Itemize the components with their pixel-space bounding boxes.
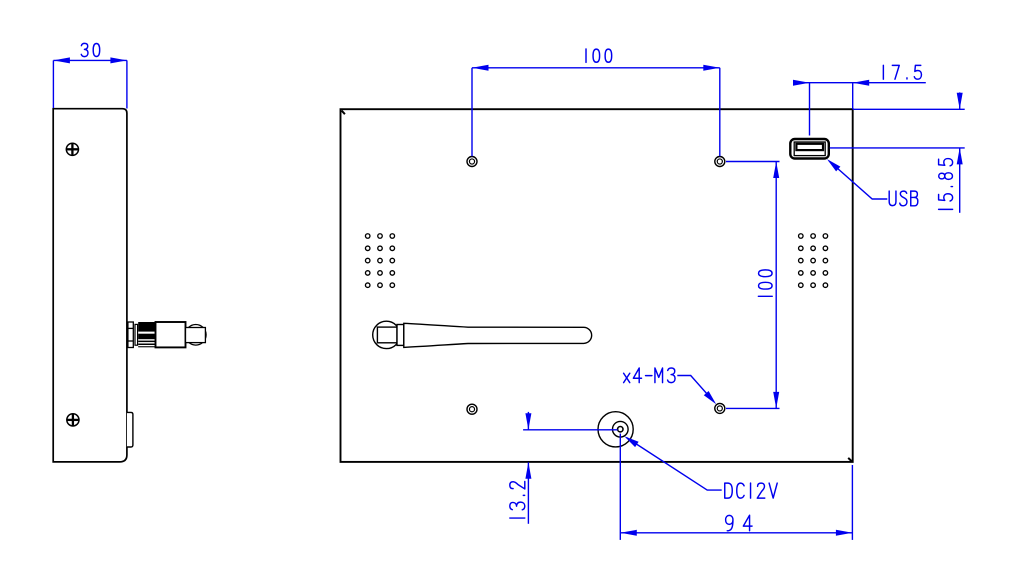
USB port inner shell bbox=[794, 142, 825, 156]
dim text 94 bbox=[726, 515, 752, 531]
dim 13.2 dimension line lower bbox=[527, 462, 529, 524]
dim text 17.5 bbox=[883, 65, 921, 79]
dim 17.5 extension line (USB centre) bbox=[809, 83, 811, 136]
antenna connector thin collar bbox=[135, 324, 138, 345]
dim 94 extension line right bbox=[851, 465, 853, 540]
dim 94 dimension line bbox=[620, 532, 852, 534]
right speaker grille holes bbox=[799, 234, 828, 288]
dim 100 right extension line top bbox=[726, 161, 780, 163]
label DC12V bbox=[725, 483, 777, 498]
dim 17.5 extension line (right edge) bbox=[852, 83, 854, 109]
dim 15.85 arrow down bbox=[957, 93, 963, 110]
rear view enclosure bbox=[341, 109, 853, 462]
dim 15.85 reference line USB centre bbox=[830, 147, 965, 149]
M3 mounting hole top-left bbox=[467, 157, 477, 167]
dim 13.2 dimension line upper bbox=[527, 412, 529, 430]
dim 94 arrow left bbox=[620, 530, 637, 536]
antenna body bbox=[404, 323, 592, 347]
label x4-M3 bbox=[624, 368, 675, 383]
side view enclosure bbox=[53, 109, 127, 462]
dim 30 dimension line bbox=[53, 59, 127, 61]
dim text 100 right bbox=[758, 270, 772, 296]
USB port outer shell bbox=[790, 139, 829, 159]
antenna connector dome tip bbox=[186, 325, 207, 346]
antenna hinge block bbox=[377, 327, 397, 343]
x4-M3 leader arrow bbox=[704, 391, 716, 404]
dim 94 extension line left (jack centre) bbox=[619, 434, 621, 540]
dim 15.85 dimension line upper bbox=[959, 92, 961, 109]
x4-M3 leader line bbox=[677, 376, 713, 401]
DC jack outer barrel bbox=[598, 412, 633, 447]
dim text 15.85 bbox=[939, 159, 953, 210]
dim text 13.2 bbox=[510, 481, 525, 518]
antenna connector flange bbox=[128, 322, 133, 348]
M3 mounting hole top-right bbox=[715, 157, 725, 167]
dim 30 extension line right bbox=[126, 60, 128, 108]
dim 13.2 arrow down bbox=[525, 413, 531, 430]
dim 30 extension line left bbox=[52, 60, 54, 108]
dim 17.5 arrow at USB centre bbox=[793, 80, 810, 86]
dim 13.2 reference line (jack centre) bbox=[523, 429, 618, 431]
corner tick bottom-right bbox=[848, 458, 852, 462]
dim text 100 top bbox=[586, 49, 612, 62]
label USB bbox=[889, 191, 918, 206]
dim 17.5 arrow at right edge bbox=[853, 80, 870, 86]
dim 100 right arrow up bbox=[773, 162, 779, 179]
M3 mounting hole bottom-right bbox=[715, 403, 725, 413]
screw top on side view bbox=[66, 143, 78, 155]
dim 100 top dimension line bbox=[472, 67, 720, 69]
dim 100 right dimension line bbox=[775, 162, 777, 409]
screw bottom on side view bbox=[67, 414, 79, 426]
USB leader line bbox=[829, 161, 887, 199]
antenna hinge circle bbox=[373, 321, 400, 348]
dim 15.85 arrow up bbox=[957, 148, 963, 165]
dim 100 top arrow left bbox=[472, 65, 489, 71]
left speaker grille holes bbox=[365, 234, 394, 288]
antenna connector knurled nut bbox=[138, 322, 155, 347]
mounting tab on side view right edge bbox=[127, 412, 133, 447]
USB leader arrow bbox=[827, 159, 840, 171]
dim text 30 bbox=[81, 43, 99, 56]
dim 100 top extension line left bbox=[471, 68, 473, 156]
dim 94 arrow right bbox=[836, 530, 853, 536]
dim 30 arrow left bbox=[53, 57, 70, 63]
dim 100 right arrow down bbox=[773, 392, 779, 409]
dim 100 right extension line bottom bbox=[726, 407, 780, 409]
dim 13.2 arrow up bbox=[525, 462, 531, 479]
M3 mounting hole bottom-left bbox=[467, 404, 477, 414]
corner tick top-left bbox=[342, 111, 345, 115]
DC jack center pin bbox=[618, 427, 623, 432]
dim 15.85 reference line top edge bbox=[853, 108, 965, 110]
DC jack inner barrel bbox=[613, 421, 629, 437]
antenna connector tip sleeve bbox=[186, 328, 206, 343]
dim 100 top arrow right bbox=[703, 65, 720, 71]
dim 15.85 dimension line lower bbox=[959, 148, 961, 213]
antenna joint bbox=[397, 325, 404, 346]
DC12V leader line bbox=[627, 438, 722, 491]
dim 30 arrow right bbox=[110, 57, 127, 63]
dim 100 top extension line right bbox=[719, 68, 721, 156]
DC12V leader arrow bbox=[624, 436, 638, 447]
dim 17.5 dimension line bbox=[794, 82, 926, 84]
antenna connector body bbox=[156, 322, 186, 347]
USB tongue bbox=[796, 144, 823, 150]
